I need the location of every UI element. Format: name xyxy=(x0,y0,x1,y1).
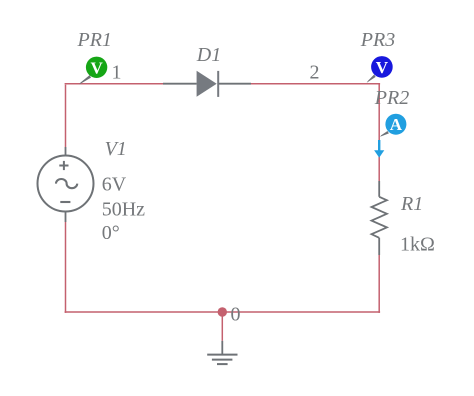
wire: diode anode gray lead xyxy=(163,83,197,85)
svg-text:0°: 0° xyxy=(102,222,120,244)
wire: ground stem red xyxy=(221,312,223,341)
probe PR1 green circle xyxy=(86,57,107,78)
wire net 0: left vertical red segment below source xyxy=(65,222,67,313)
wire net 0: bottom horizontal red wire xyxy=(65,311,381,313)
wire net 2: top horizontal red segment to right corner xyxy=(251,83,380,85)
wire: ground stem gray lead xyxy=(221,341,223,355)
resistor R1 zigzag xyxy=(372,197,387,238)
svg-text:PR3: PR3 xyxy=(360,29,395,51)
source V1 sine symbol xyxy=(56,179,77,188)
svg-text:A: A xyxy=(390,115,403,134)
diode D1 triangle xyxy=(197,71,217,97)
source V1 top gray lead xyxy=(65,147,67,155)
svg-text:0: 0 xyxy=(231,304,241,326)
junction node 0 dot xyxy=(218,307,227,316)
ground symbol xyxy=(207,355,237,365)
svg-text:6V: 6V xyxy=(102,174,127,196)
svg-text:PR2: PR2 xyxy=(374,87,409,109)
probe PR3 blue circle xyxy=(371,56,393,78)
svg-text:PR1: PR1 xyxy=(77,29,112,51)
resistor R1 top gray lead xyxy=(378,181,380,197)
current direction arrow PR2 xyxy=(378,140,380,151)
svg-text:D1: D1 xyxy=(196,44,221,66)
probe PR1 pointer needle xyxy=(79,75,91,84)
svg-text:50Hz: 50Hz xyxy=(102,199,145,221)
source V1 bottom gray lead xyxy=(65,212,67,222)
wire net 2: right vertical red segment to resistor xyxy=(378,84,380,181)
wire net 1: top horizontal red segment to diode anode xyxy=(65,83,163,85)
probe PR3 pointer needle xyxy=(367,75,376,83)
svg-text:V1: V1 xyxy=(105,138,127,160)
source V1 minus sign xyxy=(60,201,70,203)
diode D1 cathode bar xyxy=(217,71,219,97)
resistor R1 bottom gray lead xyxy=(378,238,380,255)
wire net 0: right vertical red segment below resistor xyxy=(378,255,380,313)
svg-text:1kΩ: 1kΩ xyxy=(400,234,435,256)
probe PR2 cyan circle xyxy=(385,114,406,135)
probe PR2 pointer needle xyxy=(380,131,389,137)
svg-text:V: V xyxy=(376,58,389,77)
svg-text:V: V xyxy=(90,58,103,77)
source V1 plus sign xyxy=(59,161,68,170)
svg-text:1: 1 xyxy=(112,61,122,83)
source V1 circle xyxy=(38,156,94,212)
svg-text:2: 2 xyxy=(310,62,320,84)
wire: diode cathode gray lead xyxy=(219,83,252,85)
svg-text:R1: R1 xyxy=(400,193,423,215)
wire net 1: left vertical red segment top xyxy=(65,85,67,147)
